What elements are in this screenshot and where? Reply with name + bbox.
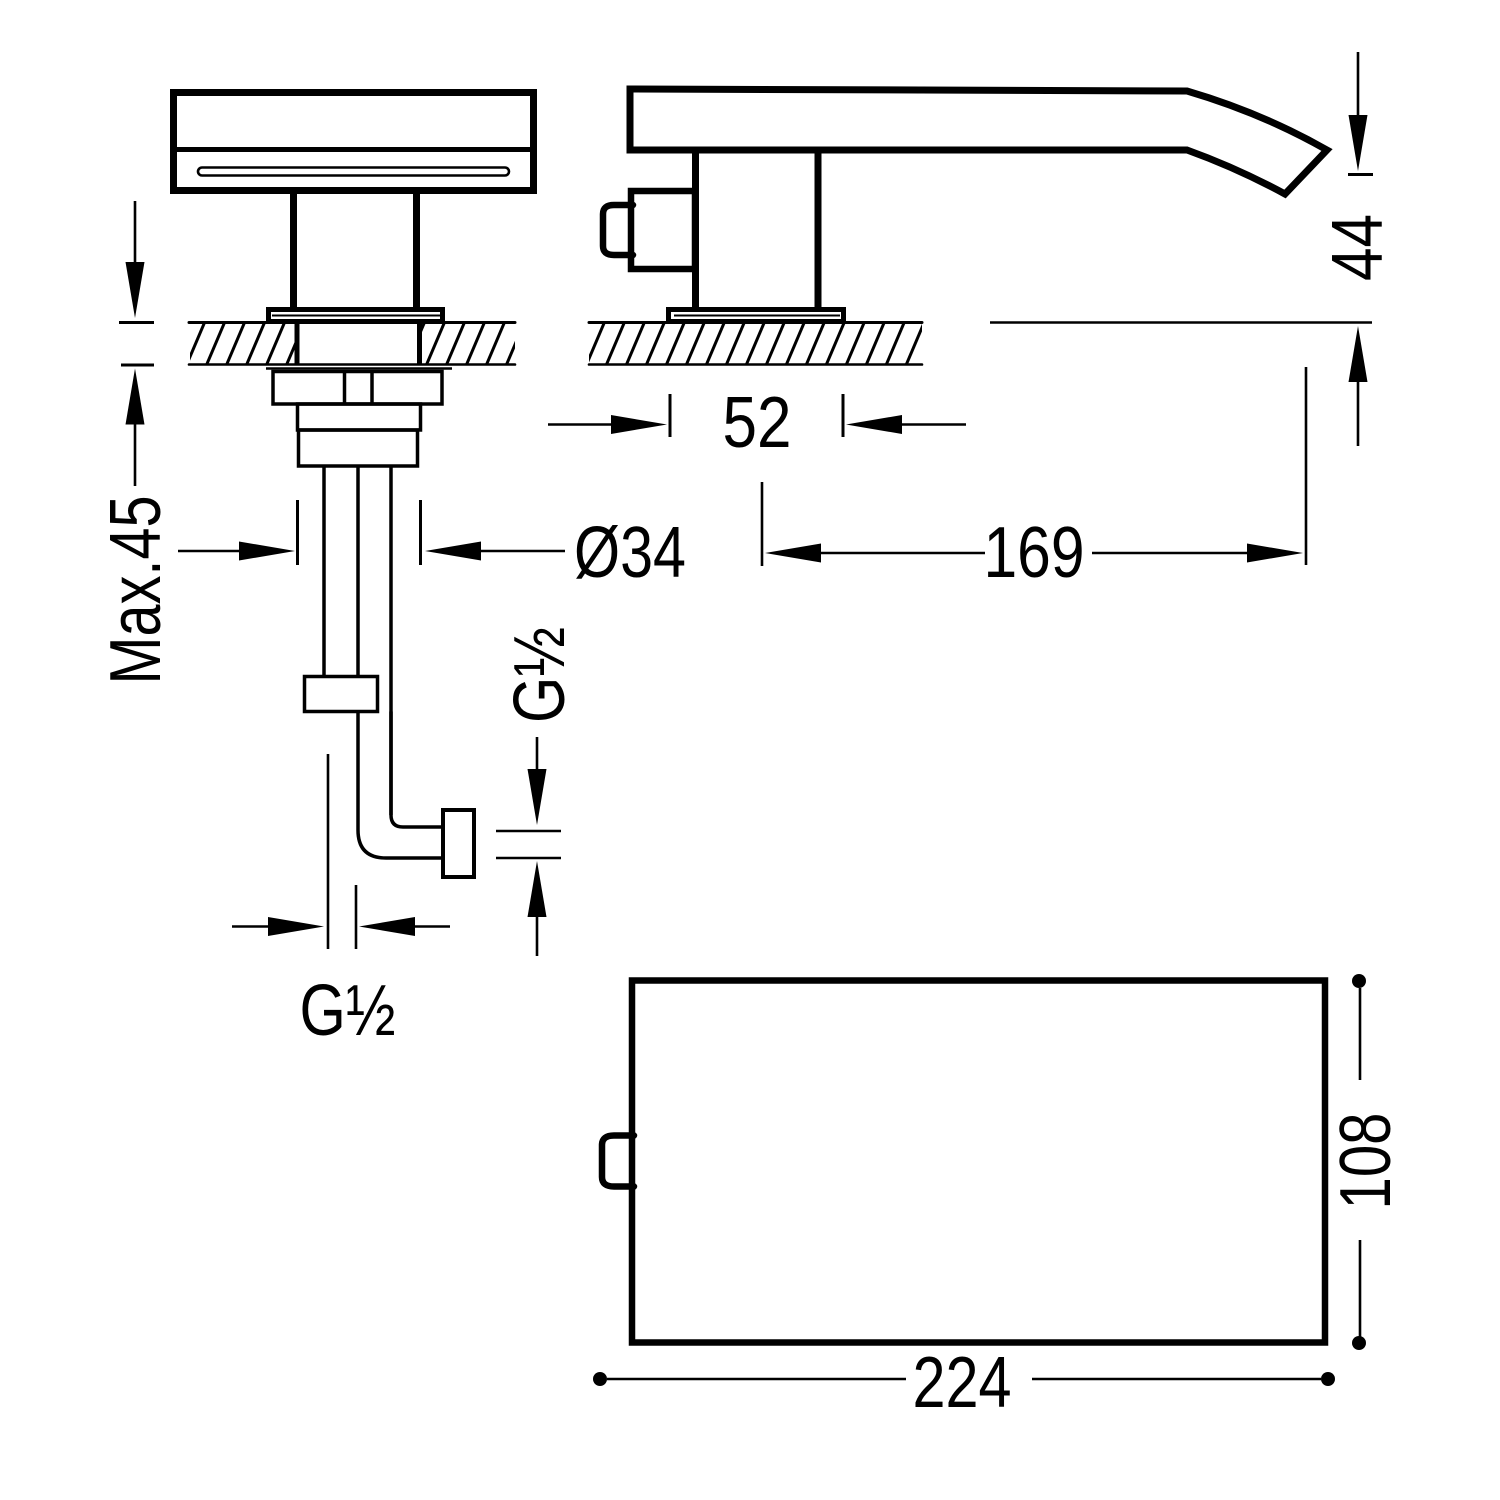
tube collar front view bbox=[305, 677, 378, 712]
base flange front view bbox=[269, 310, 443, 322]
handle side view bbox=[603, 191, 695, 269]
label 52 bbox=[723, 383, 792, 463]
label G1/2 rotated bbox=[500, 627, 580, 723]
dimension G1/2 horizontal (tube) bbox=[232, 754, 450, 949]
base flange side view bbox=[669, 310, 844, 322]
dimension Max.45 bbox=[119, 201, 154, 486]
elbow end fitting front view bbox=[443, 810, 474, 877]
stem front view bbox=[294, 192, 417, 309]
svg-text:108: 108 bbox=[1326, 1113, 1406, 1210]
washer under counter front view bbox=[266, 367, 452, 370]
countertop front view bbox=[189, 323, 515, 365]
label 169 bbox=[984, 513, 1085, 593]
dimension 169 bbox=[762, 367, 1306, 566]
dimension diameter 34 bbox=[178, 500, 565, 565]
counter reference line right bbox=[990, 321, 1372, 324]
spout side view bbox=[630, 89, 1327, 194]
label G1/2 bottom bbox=[300, 971, 396, 1051]
svg-text:Max.45: Max.45 bbox=[96, 496, 176, 685]
svg-text:Ø34: Ø34 bbox=[574, 513, 686, 593]
svg-text:G½: G½ bbox=[500, 627, 580, 723]
svg-text:169: 169 bbox=[984, 513, 1085, 593]
label Max.45 rotated bbox=[96, 496, 176, 685]
handle knob top view bbox=[602, 1136, 634, 1187]
label diameter 34 bbox=[574, 513, 686, 593]
supply tube elbow front view bbox=[358, 712, 441, 859]
lock nut front view bbox=[273, 372, 442, 405]
top view outline bbox=[632, 981, 1325, 1343]
countertop side view bbox=[589, 323, 922, 365]
supply tube upper front view bbox=[324, 466, 391, 815]
dimension 108 bbox=[1352, 974, 1366, 1350]
svg-text:G½: G½ bbox=[300, 971, 396, 1051]
dimension 52 bbox=[548, 394, 966, 437]
svg-text:52: 52 bbox=[723, 383, 792, 463]
label 108 rotated bbox=[1326, 1113, 1406, 1210]
label 224 bbox=[913, 1343, 1012, 1423]
label 44 rotated bbox=[1318, 214, 1398, 281]
spout head front view bbox=[172, 93, 535, 191]
waterfall slot front view bbox=[198, 168, 509, 176]
dimension 44 bbox=[1348, 52, 1373, 446]
shank hex section front view bbox=[298, 404, 421, 430]
svg-text:224: 224 bbox=[913, 1343, 1012, 1423]
shank lower section front view bbox=[299, 430, 418, 466]
dimension G1/2 vertical (elbow) bbox=[496, 737, 561, 956]
dimension 224 bbox=[593, 1372, 1335, 1386]
faucet body side view bbox=[696, 152, 819, 308]
svg-text:44: 44 bbox=[1318, 214, 1398, 281]
